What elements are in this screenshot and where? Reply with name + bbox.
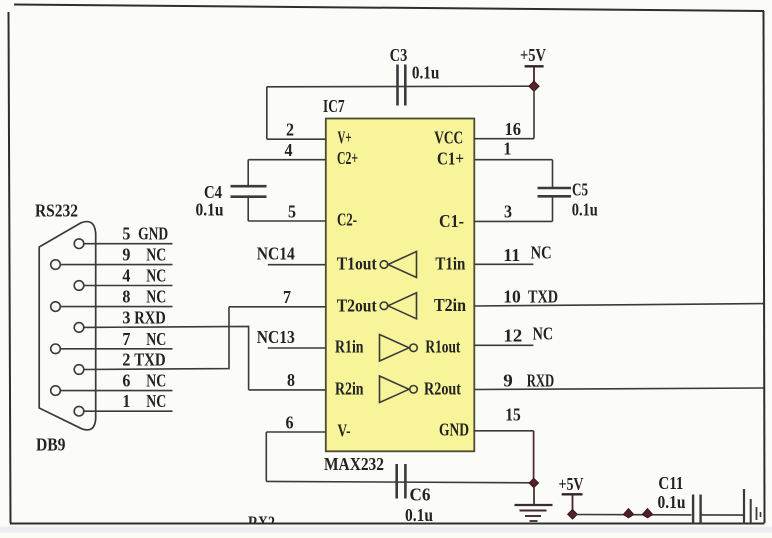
svg-text:8: 8 bbox=[122, 287, 130, 307]
svg-text:7: 7 bbox=[283, 287, 291, 307]
svg-text:TXD: TXD bbox=[528, 286, 558, 306]
DB9 pin 6 (NC) bbox=[51, 371, 173, 396]
junction node B (bottom rail) bbox=[642, 509, 652, 518]
svg-text:R1out: R1out bbox=[425, 337, 460, 357]
junction node (ground rail) bbox=[529, 478, 538, 487]
junction node (+5V / VCC top) bbox=[529, 81, 539, 91]
capacitor C3 bbox=[398, 65, 406, 106]
svg-text:C11: C11 bbox=[658, 473, 683, 493]
pin 2 wire (V+) bbox=[267, 138, 326, 140]
svg-text:1: 1 bbox=[122, 391, 130, 411]
pin 11 wire (T1in, NC) bbox=[474, 263, 533, 265]
wire: C11 to right-edge capacitor bbox=[701, 514, 744, 516]
capacitor at right edge (partial) bbox=[744, 489, 761, 524]
pin 14 stub (T1out, NC) bbox=[268, 264, 326, 266]
svg-text:NC: NC bbox=[146, 371, 166, 391]
capacitor C5 bbox=[538, 160, 572, 222]
DB9 pin 8 (NC) bbox=[51, 287, 173, 312]
svg-text:0.1u: 0.1u bbox=[572, 200, 598, 220]
svg-text:C1+: C1+ bbox=[437, 148, 464, 168]
svg-text:4: 4 bbox=[122, 266, 130, 286]
svg-text:NC: NC bbox=[146, 329, 166, 349]
svg-text:0.1u: 0.1u bbox=[405, 505, 433, 525]
wire: TXD net (DB9 pin2 to IC pin7) bbox=[84, 307, 229, 370]
pin 4 wire (C2+) bbox=[248, 159, 326, 161]
capacitor C11 bbox=[693, 495, 701, 524]
svg-text:RS232: RS232 bbox=[35, 201, 78, 221]
svg-text:C3: C3 bbox=[390, 45, 408, 65]
pin 15 wire (GND) bbox=[474, 430, 533, 432]
wire: junction down to pin 16 bbox=[533, 86, 535, 139]
svg-text:R1in: R1in bbox=[335, 337, 364, 357]
svg-text:6: 6 bbox=[122, 371, 130, 391]
buffer R1 (right-pointing triangle + bubble) bbox=[380, 335, 418, 362]
svg-text:T1out: T1out bbox=[337, 253, 377, 273]
pin 3 wire (C1-) bbox=[474, 220, 552, 222]
svg-text:NC: NC bbox=[533, 324, 554, 344]
svg-text:R2in: R2in bbox=[335, 378, 364, 398]
svg-text:T1in: T1in bbox=[435, 253, 465, 273]
svg-text:3: 3 bbox=[504, 202, 512, 222]
svg-text:11: 11 bbox=[503, 245, 520, 265]
svg-text:NC: NC bbox=[146, 287, 166, 307]
partial text RX2 (cut by bottom frame) bbox=[248, 513, 275, 533]
svg-text:7: 7 bbox=[122, 329, 130, 349]
svg-text:MAX232: MAX232 bbox=[324, 454, 384, 474]
pin 9 wire (R2out, RXD) bbox=[474, 388, 763, 390]
svg-text:9: 9 bbox=[122, 245, 130, 265]
pin 12 wire (R1out, NC) bbox=[474, 344, 533, 346]
svg-text:GND: GND bbox=[138, 224, 168, 244]
svg-text:TXD: TXD bbox=[134, 350, 166, 370]
svg-text:+5V: +5V bbox=[520, 45, 546, 65]
svg-text:10: 10 bbox=[503, 286, 521, 306]
svg-text:VCC: VCC bbox=[434, 128, 463, 148]
buffer R2 (right-pointing triangle + bubble) bbox=[380, 376, 418, 403]
DB9 pin 2 (TXD) bbox=[74, 350, 166, 375]
svg-text:NC: NC bbox=[146, 266, 166, 286]
svg-text:0.1u: 0.1u bbox=[412, 63, 440, 83]
svg-text:NC: NC bbox=[146, 391, 166, 411]
svg-text:V+: V+ bbox=[338, 128, 352, 148]
svg-text:16: 16 bbox=[505, 119, 522, 139]
wire: pin6 riser to bottom rail bbox=[265, 432, 267, 481]
connector P1 DB9 shell bbox=[39, 222, 95, 430]
svg-text:NC: NC bbox=[146, 245, 166, 265]
DB9 pin 1 (NC) bbox=[74, 391, 172, 416]
power +5V (top) bbox=[520, 45, 546, 86]
wire: RXD net (DB9 pin3 to IC pin8) bbox=[84, 326, 249, 390]
wire: pin15 riser to ground junction bbox=[533, 431, 535, 483]
svg-text:C2-: C2- bbox=[337, 210, 357, 230]
DB9 pin 4 (NC) bbox=[74, 266, 172, 291]
pin 1 wire (C1+) bbox=[474, 159, 552, 161]
IC7 MAX232 body bbox=[326, 119, 475, 452]
pin 5 wire (C2-) bbox=[248, 220, 326, 222]
svg-text:8: 8 bbox=[287, 370, 295, 390]
svg-text:12: 12 bbox=[503, 326, 522, 346]
svg-text:NC13: NC13 bbox=[257, 327, 295, 347]
junction node A (bottom rail) bbox=[623, 509, 633, 518]
pin 13 stub (R1in, NC) bbox=[268, 347, 326, 349]
buffer T1 (bubble + left-pointing triangle) bbox=[380, 252, 416, 278]
ground symbol bbox=[515, 483, 553, 521]
svg-text:DB9: DB9 bbox=[36, 435, 66, 455]
svg-text:IC7: IC7 bbox=[323, 96, 345, 116]
svg-text:9: 9 bbox=[503, 370, 513, 390]
svg-text:RXD: RXD bbox=[527, 370, 555, 390]
svg-text:3: 3 bbox=[122, 307, 130, 327]
svg-text:NC: NC bbox=[531, 243, 552, 263]
pin 6 wire (V-) bbox=[266, 431, 326, 433]
svg-text:C5: C5 bbox=[572, 180, 588, 200]
svg-text:NC14: NC14 bbox=[257, 244, 295, 264]
wire: top rail through C3 to +5V junction bbox=[267, 85, 534, 88]
wire: bottom +5V rail to C11 bbox=[573, 514, 692, 516]
svg-text:2: 2 bbox=[286, 120, 294, 140]
svg-text:2: 2 bbox=[122, 350, 130, 370]
DB9 pin 5 (GND) bbox=[74, 224, 172, 249]
pin 7 wire (T2out) bbox=[229, 306, 326, 308]
svg-text:0.1u: 0.1u bbox=[658, 492, 686, 512]
wire: pin2 riser to top rail bbox=[266, 87, 268, 139]
pin 8 wire (R2in) bbox=[249, 389, 326, 391]
junction node (+5V bottom rail) bbox=[568, 510, 578, 520]
buffer T2 (bubble + left-pointing triangle) bbox=[380, 293, 416, 319]
svg-text:V-: V- bbox=[338, 421, 351, 441]
capacitor C6 bbox=[397, 464, 406, 499]
pin 10 wire (T2in, TXD) bbox=[474, 304, 763, 306]
DB9 pin 3 (RXD) bbox=[74, 307, 166, 332]
svg-text:15: 15 bbox=[505, 405, 521, 425]
svg-text:C6: C6 bbox=[410, 485, 431, 505]
svg-text:T2out: T2out bbox=[337, 295, 377, 315]
svg-text:+5V: +5V bbox=[559, 474, 584, 494]
DB9 pin 9 (NC) bbox=[51, 245, 173, 270]
pin 16 wire (VCC) bbox=[474, 138, 534, 140]
svg-text:C2+: C2+ bbox=[337, 148, 358, 168]
svg-text:0.1u: 0.1u bbox=[196, 200, 224, 220]
svg-text:5: 5 bbox=[288, 201, 296, 221]
svg-text:R2out: R2out bbox=[424, 378, 461, 398]
svg-text:5: 5 bbox=[122, 224, 130, 244]
svg-text:6: 6 bbox=[286, 412, 294, 432]
svg-text:GND: GND bbox=[439, 420, 469, 440]
svg-text:T2in: T2in bbox=[434, 295, 466, 315]
power +5V (bottom) bbox=[559, 474, 584, 514]
svg-text:1: 1 bbox=[503, 139, 511, 159]
wire: bottom rail through C6 to ground junction bbox=[266, 481, 533, 482]
DB9 pin 7 (NC) bbox=[51, 329, 173, 354]
capacitor C4 bbox=[231, 160, 267, 221]
svg-text:RXD: RXD bbox=[134, 307, 166, 327]
svg-text:4: 4 bbox=[285, 140, 293, 160]
svg-text:C1-: C1- bbox=[439, 211, 464, 231]
